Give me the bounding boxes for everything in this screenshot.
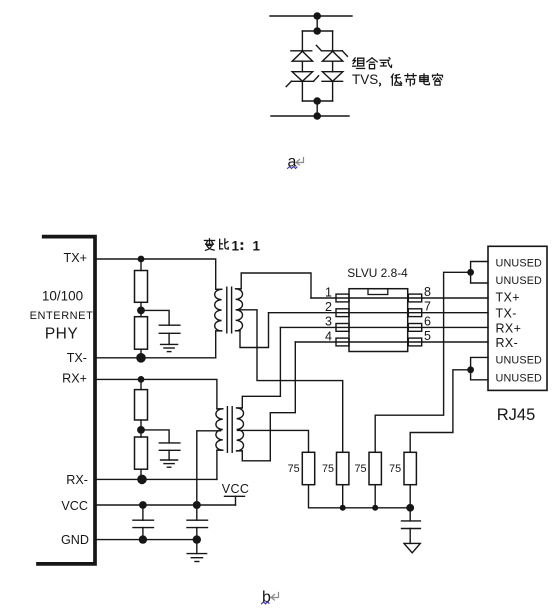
wire top rail (fig a) <box>270 15 352 17</box>
zener D3 <box>316 45 347 61</box>
junction dot <box>193 501 201 509</box>
svg-text:TX-: TX- <box>67 351 87 365</box>
svg-text:UNUSED: UNUSED <box>496 373 543 385</box>
junction dot <box>139 535 147 543</box>
wire pin3 row <box>280 326 488 328</box>
ground <box>161 460 178 467</box>
junction dot <box>193 535 201 543</box>
wire RX+ <box>95 379 217 408</box>
wire (T2 sec bottom to pin 4) <box>242 342 295 461</box>
return mark <box>296 158 304 166</box>
PHY block <box>38 237 95 564</box>
svg-text:5: 5 <box>424 329 431 343</box>
capacitor C1 <box>141 310 180 344</box>
junction dot <box>136 353 146 363</box>
svg-text:RX-: RX- <box>66 473 88 487</box>
svg-text:1: 1 <box>253 239 261 254</box>
wire unused pair bottom <box>471 357 488 379</box>
svg-text:VCC: VCC <box>222 482 250 496</box>
junction dot <box>138 256 145 263</box>
wire <box>140 430 142 437</box>
wire (T2 primary center tap to VCC) <box>197 431 221 505</box>
wire (T1 sec top to pin 1) <box>241 273 311 298</box>
diode D1 <box>291 51 313 61</box>
svg-text:ENTERNET: ENTERNET <box>30 310 94 322</box>
resistor R8 75 <box>404 452 416 484</box>
svg-text:TX-: TX- <box>496 306 517 320</box>
transformer T1 secondary winding <box>236 289 243 331</box>
diode D4 <box>322 72 343 82</box>
wire left branch <box>301 31 303 51</box>
junction dot <box>313 97 321 105</box>
resistor R4 (RX-) <box>135 437 148 469</box>
junction dot <box>138 376 145 383</box>
wire pin4 row <box>295 341 488 343</box>
resistor R5 75 <box>302 452 314 484</box>
wire TVS loop bottom <box>302 100 332 102</box>
wire <box>140 259 142 271</box>
junction dot <box>139 501 147 509</box>
transformer T2 primary winding <box>216 409 223 450</box>
wire <box>342 485 344 508</box>
capacitor C4 <box>187 505 208 540</box>
junction dot <box>340 505 346 511</box>
wire <box>316 101 318 116</box>
svg-text:2: 2 <box>325 300 332 314</box>
wire <box>140 349 142 358</box>
svg-text:75: 75 <box>288 463 300 475</box>
resistor R1 (TX+) <box>135 271 148 303</box>
wire (T1 sec bottom to pin 2) <box>240 313 269 348</box>
svg-text:75: 75 <box>354 463 366 475</box>
svg-text:8: 8 <box>424 285 431 299</box>
ground <box>161 344 178 351</box>
wire TX+ <box>95 259 216 289</box>
junction dot <box>467 269 474 276</box>
svg-text:3: 3 <box>325 315 332 329</box>
wire TX- <box>95 357 216 359</box>
wire <box>215 331 217 358</box>
svg-text:75: 75 <box>322 463 334 475</box>
resistor R6 75 <box>337 452 349 484</box>
chip U1 body <box>349 289 408 352</box>
svg-text:1: 1 <box>325 285 332 299</box>
wire <box>140 302 142 310</box>
zener D2 <box>286 72 318 87</box>
spellcheck squiggle <box>262 602 270 604</box>
svg-text:VCC: VCC <box>61 499 88 513</box>
chassis ground <box>404 543 420 552</box>
svg-text:75: 75 <box>389 463 401 475</box>
wire unused pair top <box>471 262 488 284</box>
transformer T1 primary winding <box>215 289 222 331</box>
chip U1 right pins <box>408 294 421 346</box>
junction dot <box>313 12 321 20</box>
wire <box>316 16 318 31</box>
wire (top unused to R7) <box>375 272 470 452</box>
label 变比1：1 <box>204 239 260 254</box>
svg-text:TVS: TVS <box>352 72 378 87</box>
RJ45 body <box>488 246 547 390</box>
svg-text:SLVU 2.8-4: SLVU 2.8-4 <box>347 266 408 280</box>
transformer T1 core <box>226 287 228 333</box>
svg-text:RX+: RX+ <box>62 372 87 386</box>
svg-text:7: 7 <box>424 300 431 314</box>
svg-text:1: 1 <box>232 239 240 254</box>
junction dot <box>137 475 147 485</box>
junction dot <box>467 366 474 373</box>
svg-text:10/100: 10/100 <box>42 289 83 304</box>
VCC symbol <box>225 496 245 505</box>
junction dot <box>137 307 145 315</box>
capacitor C5 <box>402 508 421 544</box>
transformer T2 secondary winding <box>237 408 244 451</box>
junction dot <box>406 504 414 512</box>
wire VCC <box>95 504 236 506</box>
junction dot <box>313 112 321 120</box>
svg-text:UNUSED: UNUSED <box>496 275 543 287</box>
wire <box>140 469 142 479</box>
chip U1 notch <box>368 289 388 295</box>
svg-text:GND: GND <box>61 533 89 547</box>
capacitor C2 <box>141 430 180 460</box>
wire <box>216 450 218 479</box>
svg-text:RX-: RX- <box>496 336 519 350</box>
wire right branch <box>332 31 334 51</box>
wire <box>332 61 334 71</box>
return mark <box>271 593 279 601</box>
resistor R7 75 <box>369 452 381 484</box>
label TVS，低节电容 <box>352 72 442 87</box>
svg-text:TX+: TX+ <box>64 251 87 265</box>
svg-text:PHY: PHY <box>45 326 78 343</box>
spellcheck squiggle <box>288 167 298 169</box>
wire pin1 row <box>311 297 488 299</box>
resistor R2 (TX-) <box>135 317 148 350</box>
capacitor C3 <box>133 505 154 540</box>
wire <box>140 379 142 389</box>
wire bottom rail (fig a) <box>271 115 349 117</box>
wire pin2 row <box>269 312 489 314</box>
wire <box>140 310 142 316</box>
label 组合式 <box>353 58 392 69</box>
svg-text:UNUSED: UNUSED <box>496 257 543 269</box>
wire (T2 sec top to pin 3) <box>242 327 280 408</box>
svg-text:4: 4 <box>325 329 332 343</box>
wire (T1 center tap) <box>237 310 343 453</box>
resistor R3 (RX+) <box>135 390 148 420</box>
junction dot <box>313 27 321 35</box>
junction dot <box>137 426 145 434</box>
wire TVS loop top <box>302 30 332 32</box>
wire (bottom unused to R8) <box>410 370 470 453</box>
junction dot <box>372 505 378 511</box>
ground <box>187 554 206 562</box>
wire <box>332 81 334 101</box>
wire <box>374 485 376 508</box>
wire <box>301 61 303 71</box>
svg-text:RX+: RX+ <box>496 321 522 335</box>
transformer T2 core <box>226 407 228 453</box>
svg-text:6: 6 <box>424 314 431 328</box>
svg-text:TX+: TX+ <box>496 291 520 305</box>
svg-text:RJ45: RJ45 <box>497 406 536 424</box>
wire <box>301 81 303 101</box>
wire GND <box>95 539 197 541</box>
wire <box>196 540 198 554</box>
wire termination rail <box>309 485 411 508</box>
chip U1 left pins <box>336 294 349 346</box>
svg-text:UNUSED: UNUSED <box>496 354 543 366</box>
wire RX- <box>95 478 217 480</box>
wire (T2 center tap to R5) <box>238 430 309 452</box>
wire <box>140 420 142 430</box>
wire <box>409 485 411 508</box>
